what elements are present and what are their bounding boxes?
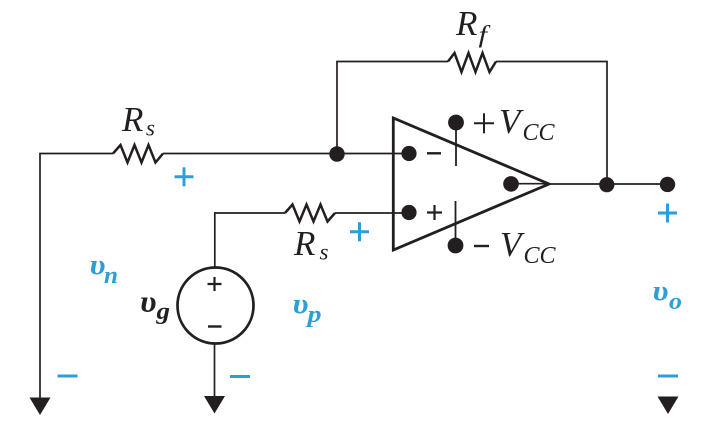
pin: non-inverting input terminal dot xyxy=(401,205,416,220)
pin: -VCC terminal dot xyxy=(448,238,464,254)
svg-text:CC: CC xyxy=(524,243,557,269)
svg-text:g: g xyxy=(155,299,170,325)
node: output terminal dot xyxy=(660,177,675,192)
op-amp U1 triangle xyxy=(393,118,549,250)
label +VCC plus sign xyxy=(474,113,494,133)
wire: non-inverting input into op-amp xyxy=(335,212,408,214)
label: cyan minus at left ground xyxy=(58,375,78,378)
svg-text:R: R xyxy=(455,4,477,43)
svg-text:CC: CC xyxy=(523,120,556,146)
label: cyan minus at output ground xyxy=(658,375,678,378)
label: cyan minus at vg ground xyxy=(230,375,250,378)
label: plus sign inside source vg xyxy=(208,277,222,291)
resistor Rs (left, series with inverting input) xyxy=(113,145,163,163)
label: minus sign at inverting input xyxy=(427,152,441,154)
label: plus sign at non-inverting input xyxy=(427,205,442,220)
node vn junction dot xyxy=(329,146,344,161)
svg-text:o: o xyxy=(669,289,682,315)
resistor Rs (middle, series with non-inverting input) xyxy=(285,205,335,222)
ground arrow left xyxy=(30,398,51,416)
wire: from source vg bottom down to ground arrow xyxy=(214,344,216,398)
svg-text:V: V xyxy=(500,225,525,264)
svg-text:p: p xyxy=(305,302,321,328)
pin: output terminal dot inside op-amp xyxy=(503,176,519,192)
wire: output dot to apex xyxy=(511,183,549,185)
wire: from left Rs to node vn junction xyxy=(163,153,337,155)
wire: output horizontal to terminal xyxy=(549,183,667,185)
svg-text:R: R xyxy=(121,100,143,139)
pin: -VCC supply stub xyxy=(455,201,457,244)
wire: feedback left vertical from node vn up to Rf xyxy=(336,62,338,154)
ground arrow below vg xyxy=(204,396,225,414)
wire: vertical from corner down to source vg xyxy=(214,212,216,267)
wire: lead from vg corner to middle Rs xyxy=(214,212,285,214)
wire: feedback right vertical down to output node xyxy=(606,62,608,185)
wire: left horizontal lead into resistor Rs xyxy=(39,153,113,155)
ground arrow right (output reference) xyxy=(658,397,679,415)
pin: +VCC supply stub xyxy=(455,124,457,166)
pin: inverting input terminal dot xyxy=(401,146,416,161)
svg-text:υ: υ xyxy=(653,275,669,307)
label: cyan plus at node vp xyxy=(350,222,369,241)
svg-text:f: f xyxy=(479,23,492,49)
svg-text:R: R xyxy=(293,224,315,263)
svg-text:s: s xyxy=(146,116,155,141)
svg-text:υ: υ xyxy=(140,284,157,319)
node: output junction dot (feedback tap) xyxy=(599,177,614,192)
svg-text:n: n xyxy=(104,263,118,289)
svg-text:V: V xyxy=(499,102,524,141)
svg-text:s: s xyxy=(320,240,329,265)
pin: +VCC terminal dot xyxy=(448,115,464,131)
label: cyan plus at output terminal xyxy=(658,204,677,223)
wire: left vertical from node vn down to ground arrow xyxy=(39,154,41,400)
label -VCC minus sign xyxy=(474,245,489,247)
resistor Rf (feedback) xyxy=(448,53,496,72)
wire: top lead from Rf to right vertical xyxy=(496,61,608,63)
wire: inverting input from node vn into op-amp xyxy=(337,153,408,155)
voltage source vg circle xyxy=(178,268,254,344)
label: minus sign inside source vg xyxy=(208,325,222,327)
label: cyan plus at node vn xyxy=(175,167,194,186)
wire: top lead from left vertical to resistor Rf xyxy=(336,61,448,63)
svg-text:υ: υ xyxy=(293,288,309,320)
